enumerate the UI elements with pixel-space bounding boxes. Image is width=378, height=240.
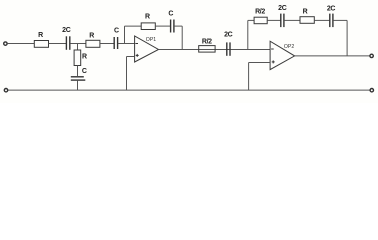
wire R to C (shunt) bbox=[77, 66, 79, 77]
svg-text:C: C bbox=[168, 11, 173, 18]
resistor R (shunt, vertical) bbox=[74, 50, 81, 66]
wire to 2C feedback a bbox=[267, 19, 280, 21]
wire OP2 output to terminal bbox=[295, 55, 370, 57]
OP2 non-inverting input wire to ground bbox=[249, 62, 271, 64]
wire R2 to C3 bbox=[100, 43, 114, 45]
svg-text:2C: 2C bbox=[224, 32, 233, 39]
wire to R feedback OP2 bbox=[284, 19, 300, 21]
op-amp OP2 bbox=[270, 41, 295, 69]
feedback tap node OP1 bbox=[124, 26, 126, 43]
svg-text:OP1: OP1 bbox=[146, 37, 156, 43]
capacitor C (feedback OP1) bbox=[171, 20, 174, 33]
resistor R (feedback OP2) bbox=[300, 17, 314, 24]
wire C to ground rail bbox=[77, 80, 79, 90]
feedback wire top OP2 bbox=[248, 19, 254, 21]
output terminal bbox=[370, 54, 373, 57]
node junction to shunt branch bbox=[77, 44, 79, 51]
svg-text:R: R bbox=[82, 54, 87, 61]
ground terminal left bbox=[4, 89, 7, 92]
resistor R1 bbox=[34, 41, 48, 48]
resistor R/2 bbox=[199, 46, 215, 53]
wire R to C feedback OP1 bbox=[155, 25, 170, 27]
wire R1 to 2C bbox=[49, 43, 67, 45]
op-amp OP1 bbox=[135, 36, 159, 62]
wire OP1 output to OP2 bbox=[159, 49, 271, 51]
OP1 non-inverting input wire to ground bbox=[127, 56, 135, 58]
capacitor C (series into OP1) bbox=[114, 37, 117, 49]
svg-text:2C: 2C bbox=[278, 5, 287, 12]
resistor R2 bbox=[86, 40, 100, 47]
capacitor 2C (feedback OP2 b) bbox=[330, 14, 333, 28]
svg-text:R: R bbox=[145, 14, 150, 21]
svg-text:C: C bbox=[82, 68, 87, 75]
capacitor 2C (series) bbox=[66, 36, 69, 50]
wire 2C to R2 bbox=[70, 43, 86, 45]
svg-text:OP2: OP2 bbox=[284, 44, 294, 50]
wire input to R1 bbox=[7, 43, 34, 45]
ground rail bbox=[8, 89, 370, 91]
input terminal bbox=[4, 42, 7, 45]
resistor R (feedback OP1) bbox=[141, 23, 155, 30]
svg-text:R: R bbox=[303, 9, 308, 16]
capacitor 2C (feedback OP2 a) bbox=[281, 14, 284, 28]
wire C3 to OP1 inverting input bbox=[118, 43, 135, 45]
resistor R/2 (feedback OP2) bbox=[254, 17, 267, 24]
svg-text:R: R bbox=[38, 32, 43, 39]
feedback tap node OP2 bbox=[247, 20, 249, 49]
feedback wire down to OP1 output bbox=[174, 25, 182, 27]
feedback wire down to output bbox=[333, 19, 347, 21]
svg-text:R: R bbox=[89, 32, 94, 39]
svg-text:2C: 2C bbox=[327, 5, 336, 12]
ground terminal right bbox=[370, 89, 373, 92]
svg-text:R/2: R/2 bbox=[202, 39, 212, 46]
svg-text:2C: 2C bbox=[62, 27, 71, 34]
capacitor 2C (series mid) bbox=[227, 42, 230, 55]
svg-text:C: C bbox=[114, 28, 119, 35]
svg-text:R/2: R/2 bbox=[255, 9, 265, 16]
feedback wire top OP1 bbox=[125, 25, 142, 27]
capacitor C (shunt to ground) bbox=[71, 77, 86, 80]
wire to 2C feedback b bbox=[314, 19, 329, 21]
